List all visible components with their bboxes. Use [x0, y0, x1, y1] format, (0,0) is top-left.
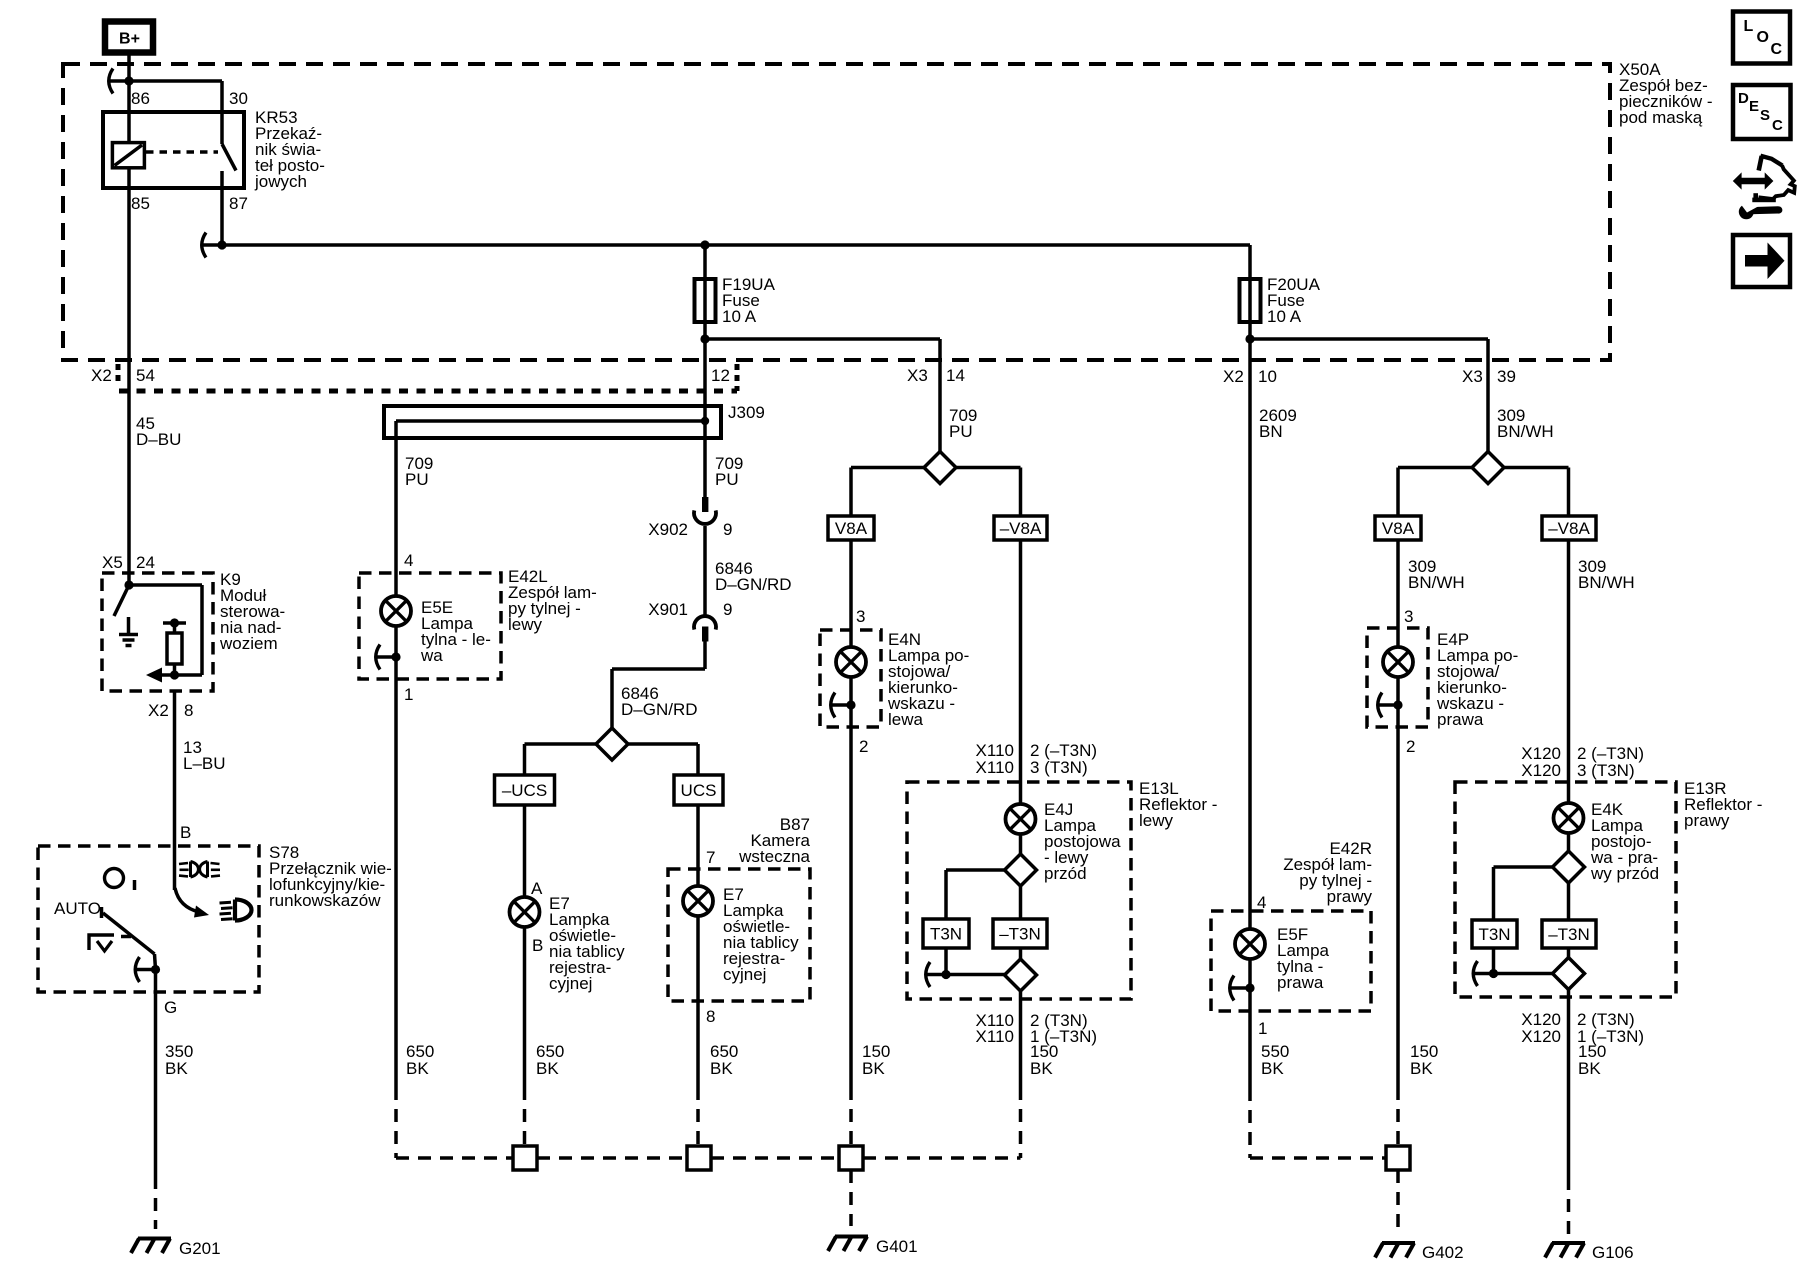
lamp E7 (license plate, switched)	[510, 897, 540, 927]
svg-text:wa: wa	[420, 646, 443, 665]
K9 input wire to switch node	[127, 573, 131, 585]
wire 13 L-BU to light switch	[173, 691, 177, 890]
connector X2 pin 8 labels	[148, 701, 193, 720]
svg-text:PU: PU	[949, 422, 973, 441]
label E4N Lampa postojowa/kierunkowskazu - lewa	[887, 630, 969, 729]
connector tick pin 12	[735, 364, 740, 391]
lamp unit E42L dashed box	[359, 573, 501, 679]
connector X902 (pin and socket)	[694, 497, 716, 524]
labels X902 pin 9	[648, 520, 732, 539]
wire label 45 D-BU	[136, 414, 181, 449]
inline connector square (E7 left)	[513, 1146, 537, 1170]
svg-text:10 A: 10 A	[1267, 307, 1302, 326]
pin label 2 E4P	[1406, 737, 1415, 756]
splice diamond E13R upper	[1553, 851, 1585, 883]
svg-text:O: O	[1757, 29, 1769, 46]
lamp E5E	[381, 596, 411, 626]
svg-text:C: C	[1771, 41, 1783, 58]
hook splice at E5E	[376, 645, 397, 670]
wire -T3N right to splice	[1567, 948, 1571, 958]
connector X3 pin 39 labels	[1462, 367, 1516, 386]
wire from X901 to splice	[612, 641, 705, 728]
wire label 650 BK (E5E)	[406, 1042, 434, 1078]
label G402	[1422, 1243, 1464, 1262]
K9 internal wire to resistor branch	[129, 585, 202, 675]
relay KR53 coil	[112, 143, 144, 168]
pin label 30	[229, 89, 248, 108]
pin label 4 E42L	[404, 551, 413, 570]
junction node E4P	[1393, 700, 1402, 709]
svg-text:BK: BK	[536, 1059, 559, 1078]
pin label 87	[229, 194, 248, 213]
svg-text:B: B	[532, 936, 543, 955]
wire 650 BK from E5E	[394, 657, 398, 1158]
svg-text:9: 9	[723, 600, 732, 619]
svg-text:8: 8	[706, 1007, 715, 1026]
svg-text:D–GN/RD: D–GN/RD	[715, 575, 792, 594]
svg-text:V8A: V8A	[835, 519, 868, 538]
svg-text:BN/WH: BN/WH	[1408, 573, 1465, 592]
wire 150 BK from E13R to ground G106	[1567, 990, 1571, 1238]
splice diamond 309 BN/WH	[1472, 452, 1504, 484]
lamp unit E42R dashed box	[1211, 911, 1371, 1011]
switch S78 pin B label	[180, 823, 191, 842]
pin label 1 E42L	[404, 685, 413, 704]
S78 output junction node	[151, 965, 160, 974]
svg-text:UCS: UCS	[681, 781, 717, 800]
relay KR53 actuation dashed link	[146, 150, 218, 154]
svg-text:X2: X2	[91, 366, 112, 385]
K9 resistor rail node	[170, 618, 179, 627]
relay KR53 box	[103, 112, 244, 188]
net box -T3N right	[1542, 920, 1596, 948]
svg-text:–T3N: –T3N	[1548, 925, 1590, 944]
junction node below fuse F20UA	[1245, 334, 1254, 343]
S78 off position circle	[105, 869, 135, 891]
svg-text:BK: BK	[862, 1059, 885, 1078]
svg-text:86: 86	[131, 89, 150, 108]
label E5F Lampa tylna - prawa	[1277, 925, 1330, 992]
fuse block X50A dashed box	[63, 64, 1610, 360]
svg-text:T3N: T3N	[1478, 925, 1510, 944]
K9 switch blade	[114, 585, 129, 616]
label KR53 Przekaznik swiatel postojowych	[254, 108, 325, 191]
pin label 1 E42R	[1258, 1019, 1267, 1038]
net box -V8A left	[994, 516, 1047, 540]
wire 150 BK from E13L	[1019, 991, 1023, 1158]
junction node E4N	[846, 700, 855, 709]
svg-text:G401: G401	[876, 1237, 918, 1256]
net box T3N left	[923, 919, 969, 948]
svg-text:S: S	[1760, 107, 1770, 124]
splice diamond 6846	[596, 728, 628, 760]
legend service/body icon	[1733, 156, 1795, 220]
ground G401	[828, 1237, 868, 1252]
wire label 309 BN/WH (X3 39)	[1497, 406, 1554, 441]
wire to -T3N right	[1567, 883, 1571, 920]
K9 resistor top rail	[163, 621, 186, 625]
label J309	[728, 403, 765, 422]
connector X120 upper labels	[1521, 744, 1644, 780]
connector X901 (socket and pin)	[694, 616, 716, 641]
wire -T3N to splice	[1019, 948, 1023, 959]
wire label 709 PU right	[715, 454, 743, 489]
S78 auto-light pictogram	[89, 935, 114, 951]
svg-text:–T3N: –T3N	[999, 924, 1041, 943]
S78 position mark dash	[121, 935, 131, 939]
K9 internal junction node	[124, 580, 133, 589]
S78 headlamp position icon	[220, 900, 252, 921]
wire 6846 D-GN/RD between connectors	[703, 526, 707, 615]
svg-text:2: 2	[859, 737, 868, 756]
wire splice to V8A right	[1398, 468, 1472, 517]
inline connector square (camera)	[687, 1146, 711, 1170]
junction node T3N right return	[1489, 969, 1498, 978]
net box V8A right	[1375, 516, 1421, 540]
battery terminal B+	[105, 22, 153, 53]
svg-text:prawa: prawa	[1437, 710, 1484, 729]
pin label 85	[131, 194, 150, 213]
wire splice to UCS	[628, 744, 698, 775]
svg-text:3: 3	[1404, 607, 1413, 626]
svg-text:3 (T3N): 3 (T3N)	[1577, 761, 1635, 780]
svg-text:2: 2	[1406, 737, 1415, 756]
svg-text:D–BU: D–BU	[136, 430, 181, 449]
svg-text:3: 3	[856, 607, 865, 626]
wire 650 BK from camera	[696, 916, 700, 1146]
net box T3N right	[1472, 920, 1517, 948]
connector X120 lower labels	[1521, 1010, 1644, 1046]
lamp E4N dashed box	[820, 630, 881, 727]
svg-text:7: 7	[706, 848, 715, 867]
headlamp E13L dashed box	[907, 782, 1131, 999]
legend box LOC	[1733, 12, 1790, 64]
junction node inside J309	[701, 417, 709, 425]
svg-text:39: 39	[1497, 367, 1516, 386]
wire splice to V8A	[851, 468, 924, 517]
connector X5 pin 24 labels	[102, 553, 155, 572]
dashed wire to ground G402	[1396, 1170, 1400, 1233]
wire label 150 BK (E13R)	[1578, 1042, 1606, 1078]
splice diamond 709 PU	[924, 452, 956, 484]
pin label 7	[706, 848, 715, 867]
wire 550 BK from E5F	[1248, 988, 1252, 1158]
svg-text:prawa: prawa	[1277, 973, 1324, 992]
harness dashed link E5F to connector	[1250, 1156, 1386, 1160]
wire 150 BK from E4N	[849, 705, 853, 1146]
svg-text:pod maską: pod maską	[1619, 108, 1703, 127]
svg-text:X901: X901	[648, 600, 688, 619]
svg-text:jowych: jowych	[254, 172, 307, 191]
K9 internal ground symbol	[119, 617, 138, 646]
svg-text:X3: X3	[1462, 367, 1483, 386]
svg-text:X120: X120	[1521, 1027, 1561, 1046]
wire label 650 BK (camera)	[710, 1042, 738, 1078]
pin label A	[531, 879, 543, 898]
svg-text:wy przód: wy przód	[1590, 864, 1659, 883]
wire to -T3N	[1019, 886, 1023, 919]
svg-text:cyjnej: cyjnej	[549, 974, 592, 993]
svg-text:wsteczna: wsteczna	[738, 847, 810, 866]
wire splice to -V8A	[956, 468, 1021, 517]
net box -T3N left	[993, 919, 1047, 948]
hook splice at S78 ground junction	[135, 957, 156, 982]
wire 2609 BN down from fuse F20UA	[1248, 339, 1252, 929]
wire label 350 BK	[165, 1042, 193, 1078]
junction node at B+ feed	[124, 76, 133, 85]
wire -V8A to headlamp E13L	[1019, 540, 1023, 804]
wire 150 BK from E4P	[1396, 705, 1400, 1146]
wire from B+ down to relay coil pin 86	[127, 55, 131, 143]
wire 350 BK to ground G201	[154, 970, 158, 1230]
E4K lower lead	[1567, 833, 1571, 851]
wire splice to -V8A right	[1504, 468, 1569, 517]
svg-text:B+: B+	[119, 31, 140, 48]
label B87 Kamera wsteczna	[738, 815, 810, 866]
label G401	[876, 1237, 918, 1256]
svg-text:BK: BK	[1578, 1059, 1601, 1078]
svg-text:PU: PU	[405, 470, 429, 489]
wire 45 D-BU to body control module	[127, 360, 131, 573]
svg-text:BN/WH: BN/WH	[1578, 573, 1635, 592]
svg-text:X110: X110	[976, 758, 1014, 777]
net box V8A left	[828, 516, 874, 540]
K9 resistor	[167, 623, 182, 675]
S78 AUTO contact tick	[100, 907, 104, 918]
svg-text:L–BU: L–BU	[183, 754, 226, 773]
svg-text:–V8A: –V8A	[1000, 519, 1042, 538]
junction node above fuse F19UA	[700, 240, 709, 249]
net box -UCS	[495, 775, 555, 805]
svg-text:G201: G201	[179, 1239, 221, 1258]
E5E lower lead	[394, 626, 398, 657]
lamp E4P	[1383, 647, 1413, 677]
inline connector square (right rear)	[1386, 1146, 1410, 1170]
label E7 Lampka oswietlenia tablicy rejestracyjnej (camera)	[723, 885, 799, 984]
hook splice at pin 87 junction	[202, 233, 223, 258]
legend box DESC	[1733, 85, 1791, 139]
fuse F20UA	[1240, 279, 1261, 322]
S78 wiper blade with arrow	[175, 888, 209, 918]
splice diamond E13R lower	[1553, 958, 1585, 990]
connector tick X2-54	[116, 364, 121, 386]
hook splice at E5F	[1230, 976, 1251, 1001]
svg-text:G402: G402	[1422, 1243, 1464, 1262]
svg-text:BK: BK	[1030, 1059, 1053, 1078]
splice diamond E13L lower	[1005, 959, 1037, 991]
relay coil lower wire pin 85	[127, 168, 131, 360]
svg-text:D–GN/RD: D–GN/RD	[621, 700, 698, 719]
svg-text:G106: G106	[1592, 1243, 1634, 1262]
svg-text:przód: przód	[1044, 864, 1087, 883]
svg-text:BK: BK	[165, 1059, 188, 1078]
wire to T3N	[946, 870, 1005, 919]
label X50A Zespol bezpiecznikow - pod maska	[1619, 60, 1713, 127]
svg-text:4: 4	[1257, 893, 1266, 912]
svg-text:–V8A: –V8A	[1548, 519, 1590, 538]
label E13R Reflektor - prawy	[1684, 779, 1762, 830]
svg-text:1: 1	[1258, 1019, 1267, 1038]
hook splice at T3N right return	[1473, 961, 1494, 986]
label E42R Zespol lampy tylnej - prawy	[1283, 839, 1372, 906]
svg-text:L: L	[1744, 18, 1754, 35]
lamp E4P dashed box	[1367, 628, 1428, 727]
svg-text:X3: X3	[907, 366, 928, 385]
wire V8A right to lamp E4P	[1396, 540, 1400, 647]
wire splice to -UCS	[525, 744, 597, 775]
wire 650 BK from E7	[523, 927, 527, 1146]
svg-text:8: 8	[184, 701, 193, 720]
ground G201	[131, 1239, 171, 1254]
svg-text:cyjnej: cyjnej	[723, 965, 766, 984]
svg-text:E: E	[1749, 98, 1759, 115]
lamp E5F	[1235, 929, 1265, 959]
connector X2 pin 10 labels	[1223, 367, 1277, 386]
svg-text:X110: X110	[976, 1027, 1014, 1046]
svg-text:X2: X2	[148, 701, 169, 720]
wire corner to fuse F20UA	[1248, 245, 1252, 339]
wire label 650 BK (E7)	[536, 1042, 564, 1078]
wire label 150 BK (E13L)	[1030, 1042, 1058, 1078]
bus bar J309	[384, 406, 721, 438]
pin label 8	[706, 1007, 715, 1026]
branch wire to X3 pin 39	[1250, 339, 1488, 452]
relay KR53 switch blade (pin 30 to 87)	[222, 144, 236, 171]
svg-text:9: 9	[723, 520, 732, 539]
svg-text:B: B	[180, 823, 191, 842]
legend box arrow	[1733, 235, 1790, 287]
S78 AUTO label	[54, 899, 101, 918]
main feed wire from relay 87 across fuse box	[222, 243, 1250, 247]
wire branch to relay pin 30	[129, 81, 222, 144]
svg-text:V8A: V8A	[1382, 519, 1415, 538]
pin label 86	[131, 89, 150, 108]
junction node pin 87 bus	[217, 240, 226, 249]
label E4P Lampa postojowa/kierunkowskazu - prawa	[1436, 630, 1518, 729]
svg-text:–UCS: –UCS	[502, 781, 547, 800]
wire label 309 BN/WH below V8A	[1408, 557, 1465, 592]
svg-text:BK: BK	[406, 1059, 429, 1078]
E4N lower lead	[849, 677, 853, 705]
svg-text:X120: X120	[1521, 761, 1561, 780]
svg-text:woziem: woziem	[219, 634, 278, 653]
label K9 Modul sterowania nadwoziem	[219, 570, 285, 653]
svg-text:BK: BK	[1410, 1059, 1433, 1078]
connector X3 pin 14 labels	[907, 366, 965, 385]
svg-text:C: C	[1772, 117, 1783, 134]
junction node E5F	[1245, 983, 1254, 992]
wire through fuse F19UA	[703, 245, 707, 339]
ground G106	[1545, 1243, 1585, 1258]
junction node below fuse F19UA	[700, 334, 709, 343]
S78 selector blade to G	[103, 913, 156, 970]
dashed wire to ground G401	[849, 1170, 853, 1226]
pin label 4 E42R	[1257, 893, 1266, 912]
svg-text:12: 12	[711, 366, 730, 385]
wire label 709 PU left	[405, 454, 433, 489]
svg-text:14: 14	[946, 366, 965, 385]
svg-text:X902: X902	[648, 520, 688, 539]
connector strip dotted line X2	[119, 389, 737, 394]
svg-text:G: G	[164, 998, 177, 1017]
K9 output direction arrow	[146, 668, 175, 683]
svg-text:54: 54	[136, 366, 155, 385]
svg-text:PU: PU	[715, 470, 739, 489]
svg-text:AUTO: AUTO	[54, 899, 101, 918]
wire -V8A right to headlamp E13R	[1567, 540, 1571, 803]
hook splice at B+ junction	[109, 69, 130, 94]
connector X110 upper labels	[976, 741, 1098, 777]
svg-text:10: 10	[1258, 367, 1277, 386]
svg-text:runkowskazów: runkowskazów	[269, 891, 381, 910]
wire label 150 BK (E4N)	[862, 1042, 890, 1078]
pin label 3 E4N	[856, 607, 865, 626]
lamp E4J	[1006, 804, 1036, 834]
wire label 13 L-BU	[183, 738, 226, 773]
svg-text:1: 1	[404, 685, 413, 704]
pin label 2 E4N	[859, 737, 868, 756]
switch S78 dashed box	[38, 846, 259, 992]
svg-text:D: D	[1738, 90, 1749, 107]
wire label 6846 D-GN/RD upper	[715, 559, 792, 594]
wire 709 PU to tail lamp E5E	[394, 438, 398, 596]
hook splice at T3N return	[926, 962, 947, 987]
S78 pin G label	[164, 998, 177, 1017]
lamp E7 in camera	[683, 886, 713, 916]
label E42L Zespol lampy tylnej - lewy	[508, 567, 597, 634]
svg-text:30: 30	[229, 89, 248, 108]
svg-text:10 A: 10 A	[722, 307, 757, 326]
wire label 309 BN/WH below -V8A	[1578, 557, 1635, 592]
junction node E5E	[391, 652, 400, 661]
branch wire to X3 pin 14	[705, 339, 940, 452]
harness dashed bus to G401	[396, 1156, 1021, 1160]
label F20UA Fuse 10 A	[1267, 275, 1321, 326]
headlamp E13R dashed box	[1455, 782, 1676, 997]
svg-text:lewa: lewa	[888, 710, 924, 729]
label E5E Lampa tylna - lewa	[420, 598, 491, 665]
hook splice at E4P	[1378, 693, 1399, 718]
labels X901 pin 9	[648, 600, 732, 619]
splice diamond E13L upper	[1005, 854, 1037, 886]
net box -V8A right	[1542, 516, 1596, 540]
label E13L Reflektor - lewy	[1139, 779, 1217, 830]
pin label 3 E4P	[1404, 607, 1413, 626]
svg-text:85: 85	[131, 194, 150, 213]
connector X110 lower labels	[976, 1011, 1098, 1046]
svg-text:BK: BK	[710, 1059, 733, 1078]
label S78 Przelacznik wielofunkcyjny/kierunkowskazow	[269, 843, 392, 910]
S78 parking lamp position icon	[179, 862, 220, 878]
label G201	[179, 1239, 221, 1258]
svg-text:BN/WH: BN/WH	[1497, 422, 1554, 441]
E4J lower lead	[1019, 834, 1023, 854]
label F19UA Fuse 10 A	[722, 275, 776, 326]
svg-text:4: 4	[404, 551, 413, 570]
svg-text:BN: BN	[1259, 422, 1283, 441]
wire label 550 BK	[1261, 1042, 1289, 1078]
camera B87 dashed box	[668, 869, 810, 1001]
connector X2 pin 54 labels	[91, 366, 155, 385]
label E7 Lampka oswietlenia tablicy rejestracyjnej	[549, 894, 625, 993]
svg-text:J309: J309	[728, 403, 765, 422]
label E4J Lampa postojowa - lewy przod	[1044, 800, 1121, 883]
E4P lower lead	[1396, 677, 1400, 705]
wire from pin 12 down through J309 to connector X902	[703, 339, 707, 497]
lamp E4K	[1554, 803, 1584, 833]
ground G402	[1375, 1243, 1415, 1258]
lamp E4N	[836, 647, 866, 677]
